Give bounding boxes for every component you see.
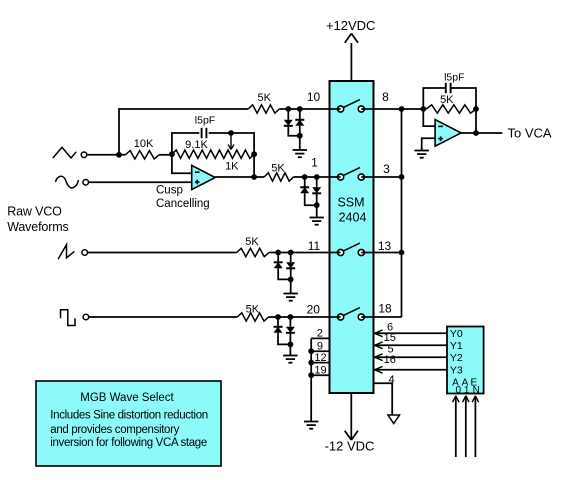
wire U4 select input 1 <box>465 396 467 457</box>
junction bus row1 <box>399 106 405 112</box>
svg-text:l5pF: l5pF <box>444 71 464 83</box>
svg-text:1: 1 <box>311 156 318 170</box>
wire ground bus pins 2-19 <box>310 338 312 421</box>
arrow U4 select input 1 <box>463 396 469 402</box>
junction bus row3 <box>399 250 405 256</box>
svg-text:0: 0 <box>456 385 462 396</box>
svg-text:8: 8 <box>382 90 389 104</box>
svg-text:16: 16 <box>384 354 396 366</box>
svg-text:10: 10 <box>307 90 321 104</box>
junction clamp left row1 <box>285 106 291 112</box>
switch S1 inside U1 <box>330 100 374 113</box>
svg-text:3: 3 <box>383 162 390 176</box>
wire Y2 to U1 <box>375 356 447 358</box>
resistor 10K <box>125 151 159 159</box>
svg-text:9: 9 <box>317 341 323 353</box>
junction stub 19 <box>308 372 314 378</box>
svg-text:5K: 5K <box>440 94 454 106</box>
diode D2b <box>312 187 321 193</box>
arrow Y3 into U1 <box>375 366 383 373</box>
junction feedback right <box>473 106 479 112</box>
wire cap loop right <box>209 133 254 154</box>
svg-text:18: 18 <box>378 301 392 315</box>
wire clamp right bottom row1 <box>299 126 301 136</box>
wire pin8 to summing node <box>374 108 424 110</box>
wire trimmer wiper <box>230 136 232 149</box>
wire clamp right branch row4 <box>289 317 291 327</box>
svg-text:2404: 2404 <box>339 210 367 224</box>
wire pin4 <box>374 383 393 414</box>
switch S3 inside U1 <box>330 243 374 255</box>
wire clamp right bottom row2 <box>316 193 318 205</box>
svg-text:Waveforms: Waveforms <box>7 220 68 234</box>
resistor 5K pin11 <box>237 248 269 256</box>
resistor 5K pin1 <box>264 173 293 181</box>
decoder IC U4 body <box>447 327 484 394</box>
junction clamp right row2 <box>314 174 320 180</box>
wire clamp right bottom row4 <box>289 333 291 345</box>
note box MGB Wave Select <box>36 381 221 466</box>
junction clamp right row3 <box>288 250 294 256</box>
wire U1 bottom to -12V <box>350 393 352 439</box>
wire triangle input to 10K <box>87 154 125 156</box>
ground at output op-amp <box>415 151 429 158</box>
svg-text:2: 2 <box>317 328 323 340</box>
op-amp U2A output buffer <box>435 120 461 147</box>
diode D1a <box>284 120 293 126</box>
wire 5K to pin1 <box>293 176 329 178</box>
resistor 5K pin10 feed <box>248 105 279 113</box>
wire clamp left branch row2 <box>304 177 306 187</box>
junction clamp left row3 <box>275 250 281 256</box>
junction bus row2 <box>399 174 405 180</box>
wire feedback cap loop <box>423 88 446 109</box>
arrow Y1 into U1 <box>375 342 383 349</box>
arrow Y2 into U1 <box>375 354 383 361</box>
wire 5K to pin20 <box>269 316 330 318</box>
wire square to 5K <box>89 316 237 318</box>
wire clamp left branch row1 <box>287 109 289 120</box>
wire Y3 to U1 <box>375 369 447 371</box>
wire clamp left bottom row4 <box>278 333 290 345</box>
junction clamp join row2 <box>314 202 320 208</box>
resistor 5K pin20 <box>237 313 268 321</box>
waveform symbol sawtooth wave <box>58 245 74 259</box>
svg-text:l5pF: l5pF <box>195 115 215 127</box>
diode D4b <box>286 327 295 333</box>
diode D3a <box>274 262 283 268</box>
svg-text:Y3: Y3 <box>450 365 463 377</box>
svg-text:N: N <box>473 385 480 396</box>
svg-text:5K: 5K <box>271 162 285 174</box>
svg-text:+12VDC: +12VDC <box>326 18 376 33</box>
wire noninverting input U2A <box>422 138 435 150</box>
wire clamp left branch row4 <box>277 317 279 327</box>
wire inverting input U2A <box>423 109 435 126</box>
wire clamp to ground row3 <box>290 279 292 293</box>
wire clamp to ground row2 <box>316 205 318 217</box>
svg-text:Cusp: Cusp <box>156 185 183 197</box>
svg-text:12: 12 <box>314 352 326 364</box>
wire clamp left bottom row3 <box>278 268 291 279</box>
arrow U4 select input 2 <box>472 396 478 402</box>
junction output node <box>473 130 479 136</box>
svg-text:Includes Sine distortion reduc: Includes Sine distortion reduction <box>50 410 208 422</box>
junction feedback right cusp <box>251 151 257 157</box>
svg-text:and provides compensitory: and provides compensitory <box>50 424 179 436</box>
resistor 5K feedback <box>426 105 476 113</box>
junction clamp join row1 <box>297 133 303 139</box>
capacitor 15pF output <box>446 83 451 93</box>
svg-text:10K: 10K <box>134 138 154 150</box>
diode D3b <box>286 262 295 268</box>
arrow U4 select input 0 <box>453 396 459 402</box>
capacitor 15pF cusp <box>202 128 207 138</box>
svg-text:5K: 5K <box>257 92 271 104</box>
node cusp inverting input <box>169 151 175 157</box>
wire clamp right bottom row3 <box>290 268 292 279</box>
switch S2 inside U1 <box>330 168 374 180</box>
junction clamp right row1 <box>297 106 303 112</box>
diode D2a <box>300 187 309 193</box>
terminal sawtooth input <box>82 250 88 256</box>
ground clamp row3 <box>284 294 298 301</box>
wire ground stub pin 12 <box>311 362 329 364</box>
svg-text:19: 19 <box>314 365 326 377</box>
wire +12V supply to U1 top <box>350 43 352 81</box>
wire 5K to pin10 <box>279 108 329 110</box>
waveform symbol triangle wave <box>53 147 76 158</box>
svg-text:To VCA: To VCA <box>508 126 552 141</box>
wire ground stub pin 9 <box>311 350 329 352</box>
wire ground stub pin 19 <box>311 374 329 376</box>
wire 5K to pin11 <box>269 252 330 254</box>
wire clamp to ground row1 <box>299 136 301 150</box>
waveform symbol sine wave <box>56 176 79 188</box>
svg-text:Y2: Y2 <box>450 352 463 364</box>
junction clamp right row4 <box>288 314 294 320</box>
svg-text:15: 15 <box>384 332 396 344</box>
svg-text:11: 11 <box>308 239 321 253</box>
junction trimmer wiper top <box>228 130 234 136</box>
analog switch IC U1 SSM2404 body <box>330 81 374 393</box>
svg-text:Cancelling: Cancelling <box>156 198 210 210</box>
switch S4 inside U1 <box>330 308 374 321</box>
svg-text:inversion for following VCA st: inversion for following VCA stage <box>50 437 207 449</box>
junction cusp output <box>251 174 257 180</box>
junction stub 9 <box>308 348 314 354</box>
wire clamp right branch row1 <box>299 109 301 120</box>
svg-text:MGB Wave Select: MGB Wave Select <box>80 392 174 404</box>
ground clamp row4 <box>283 356 297 363</box>
wire U4 select input 0 <box>455 396 457 457</box>
svg-text:13: 13 <box>378 239 392 253</box>
ground clamp row1 <box>293 150 307 157</box>
svg-text:5K: 5K <box>246 304 260 316</box>
arrow Y0 into U1 <box>375 330 383 337</box>
wire Y0 to U1 <box>375 332 447 334</box>
diode D4a <box>274 327 283 333</box>
wire ground stub pin 2 <box>311 337 329 339</box>
wire clamp right branch row3 <box>290 253 292 263</box>
wire sawtooth to 5K <box>88 252 237 254</box>
svg-text:5K: 5K <box>245 236 259 248</box>
svg-text:1K: 1K <box>225 160 239 172</box>
arrow -12V down <box>345 431 358 440</box>
wire pin13 to bus <box>374 252 402 254</box>
wire cusp feedback to output <box>253 154 255 177</box>
wire op-amp output to VCA <box>461 132 502 134</box>
wire pin18 to bus <box>374 316 402 318</box>
junction clamp join row3 <box>288 277 294 283</box>
terminal sine input <box>83 180 89 186</box>
junction clamp left row4 <box>275 314 281 320</box>
wire cap loop left <box>172 133 199 154</box>
wire pin3 to bus <box>374 176 402 178</box>
wire clamp left bottom row2 <box>305 193 317 205</box>
junction clamp left row2 <box>302 174 308 180</box>
waveform symbol square wave <box>61 310 76 326</box>
resistor 9.1K and 1K trimmer <box>172 150 254 158</box>
wire clamp right branch row2 <box>316 177 318 187</box>
ground clamp row2 <box>310 218 324 225</box>
wire clamp to ground row4 <box>289 344 291 355</box>
ground for pins 2-19 <box>304 422 318 429</box>
wire cusp output <box>215 176 264 178</box>
svg-text:SSM: SSM <box>337 196 364 210</box>
svg-text:4: 4 <box>389 374 395 386</box>
arrow +12V up <box>345 34 358 43</box>
svg-text:Y0: Y0 <box>450 328 463 340</box>
terminal triangle input <box>81 152 87 158</box>
svg-text:20: 20 <box>307 303 321 317</box>
node summing junction <box>420 106 426 112</box>
wire feedback cap right <box>451 88 476 109</box>
chassis ground pin4 <box>388 415 400 424</box>
svg-text:-12 VDC: -12 VDC <box>325 439 375 454</box>
junction clamp join row4 <box>288 342 294 348</box>
wire output bus vertical <box>401 109 403 317</box>
wire clamp left bottom row1 <box>288 126 300 136</box>
wire cusp inverting lead <box>172 154 192 173</box>
wire sine to noninverting input <box>89 181 192 183</box>
svg-text:Y1: Y1 <box>450 340 463 352</box>
junction triangle feed <box>116 152 122 158</box>
wire feedback to output node <box>475 109 477 133</box>
wire U4 select input 2 <box>474 396 476 457</box>
wire triangle node up to 5K feed <box>119 109 248 155</box>
diode D1b <box>295 120 304 126</box>
arrow trimmer wiper <box>228 145 234 150</box>
terminal square input <box>83 314 89 320</box>
svg-text:1: 1 <box>464 385 470 396</box>
wire Y1 to U1 <box>375 344 447 346</box>
wire 10K to inverting node <box>159 154 172 156</box>
svg-text:9.1K: 9.1K <box>185 139 208 151</box>
op-amp U3 cusp cancelling <box>192 165 216 189</box>
svg-text:Raw VCO: Raw VCO <box>7 205 62 219</box>
junction stub 12 <box>308 360 314 366</box>
wire clamp left branch row3 <box>277 253 279 263</box>
